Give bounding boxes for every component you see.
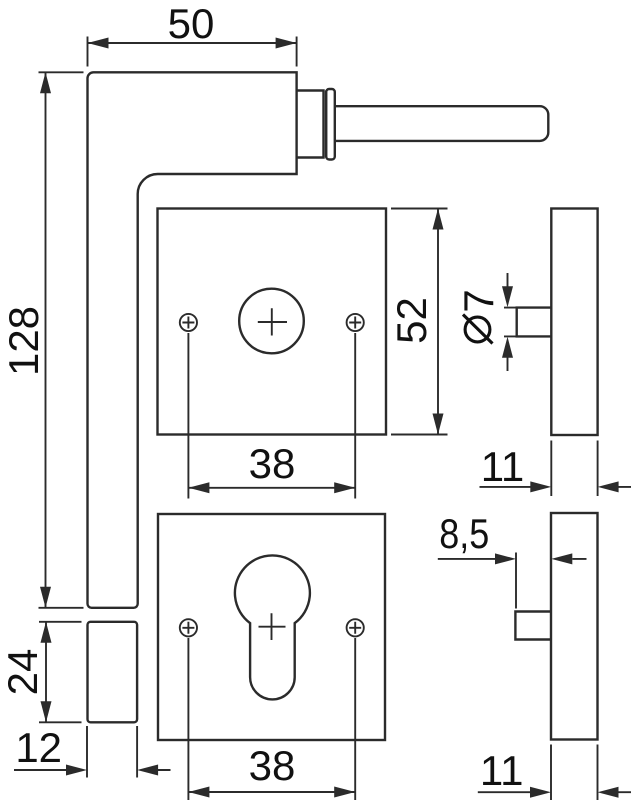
dimension 12 bbox=[14, 726, 171, 778]
euro cylinder keyhole bbox=[235, 555, 310, 699]
bottom side view cylinder stub bbox=[515, 612, 551, 640]
svg-text:38: 38 bbox=[249, 742, 296, 789]
svg-text:7: 7 bbox=[455, 289, 502, 312]
cross mark top plate bbox=[258, 308, 287, 335]
dimension 38 bottom bbox=[188, 638, 355, 800]
svg-text:11: 11 bbox=[480, 747, 524, 794]
dimension 38 top bbox=[188, 333, 355, 499]
bottom side view plate bbox=[551, 513, 598, 740]
handle lever front view bbox=[88, 72, 297, 608]
top side view spindle stub bbox=[517, 308, 552, 337]
svg-text:11: 11 bbox=[481, 443, 525, 490]
top rose plate front view bbox=[158, 209, 387, 435]
handle hole circle bbox=[239, 289, 304, 354]
handle neck bbox=[297, 91, 324, 158]
cross mark bottom plate bbox=[259, 613, 286, 640]
svg-text:12: 12 bbox=[15, 724, 62, 771]
dimension 24 bbox=[39, 622, 82, 723]
screw bottom-right bbox=[347, 619, 364, 636]
screw bottom-left bbox=[180, 619, 197, 636]
dimension 128 bbox=[39, 72, 84, 608]
collar washer bbox=[326, 89, 335, 160]
svg-text:52: 52 bbox=[388, 297, 435, 344]
dimension 11 top bbox=[480, 441, 631, 497]
screw top-left bbox=[180, 314, 197, 331]
lower spindle piece bbox=[88, 622, 138, 723]
handle grip bar bbox=[335, 106, 549, 141]
dimension 50 bbox=[88, 37, 297, 67]
dimension diameter 7 bbox=[502, 273, 518, 371]
svg-text:38: 38 bbox=[249, 440, 296, 487]
svg-text:50: 50 bbox=[168, 0, 215, 47]
dim text diameter 7 bbox=[455, 289, 502, 343]
svg-text:24: 24 bbox=[0, 649, 46, 696]
bottom rose plate front view bbox=[158, 514, 385, 740]
screw top-right bbox=[347, 314, 364, 331]
top side view plate bbox=[551, 209, 597, 436]
svg-text:128: 128 bbox=[0, 306, 47, 376]
dimension 8,5 bbox=[438, 553, 587, 609]
dimension 52 bbox=[391, 209, 448, 435]
dimension 11 bottom bbox=[478, 745, 631, 800]
svg-text:8,5: 8,5 bbox=[439, 510, 489, 557]
neck ring line bbox=[325, 91, 327, 158]
